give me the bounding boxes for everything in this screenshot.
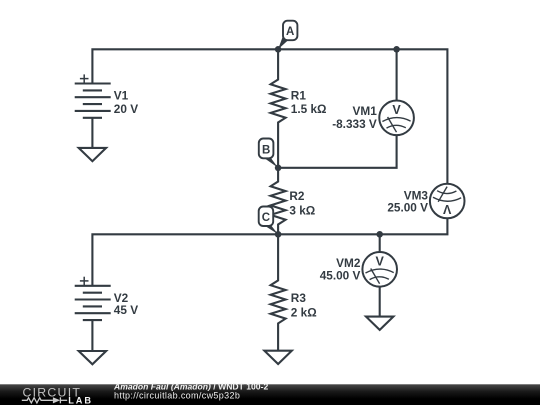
logo resistor-diode squiggle bbox=[22, 397, 67, 403]
svg-text:A: A bbox=[286, 26, 294, 38]
wire: V1 minus to ground bbox=[91, 118, 93, 148]
svg-text:V: V bbox=[392, 103, 401, 117]
wire: VM3 bottom to bottom-right corner, left along middle rail, down to V2 bbox=[92, 218, 447, 285]
voltmeter VM1 bbox=[379, 101, 414, 136]
ground below V2 bbox=[79, 351, 106, 364]
label VM2 / 45.00 V bbox=[320, 256, 361, 282]
ground below R3 bbox=[264, 351, 291, 364]
label V2 / 45 V bbox=[114, 291, 138, 317]
svg-text:V: V bbox=[376, 255, 385, 269]
wire: VM2 branch from middle rail bbox=[379, 234, 381, 252]
label VM3 / 25.00 V bbox=[387, 188, 428, 214]
svg-text:V1: V1 bbox=[114, 89, 129, 103]
junction node A dot bbox=[275, 46, 282, 53]
node A flag bbox=[278, 21, 297, 50]
svg-text:20 V: 20 V bbox=[114, 102, 138, 116]
svg-text:C: C bbox=[262, 212, 270, 224]
junction dot at VM1 top tap bbox=[393, 46, 400, 53]
svg-text:-8.333 V: -8.333 V bbox=[332, 117, 377, 131]
node B flag bbox=[259, 139, 278, 168]
svg-text:LAB: LAB bbox=[68, 395, 93, 405]
wire: VM2 bottom to its ground bbox=[379, 287, 381, 317]
junction node C dot bbox=[275, 231, 282, 238]
svg-text:R1: R1 bbox=[291, 89, 307, 103]
V2 plus sign bbox=[80, 277, 89, 285]
resistor R2 bbox=[271, 168, 286, 235]
svg-text:R2: R2 bbox=[289, 189, 305, 203]
svg-text:1.5 kΩ: 1.5 kΩ bbox=[291, 102, 327, 116]
svg-text:V: V bbox=[443, 202, 452, 216]
svg-text:2 kΩ: 2 kΩ bbox=[291, 305, 317, 319]
wire: V2 minus to ground bbox=[91, 320, 93, 351]
footer bar bbox=[0, 384, 540, 405]
wire: VM1 bottom to node B bbox=[278, 135, 397, 168]
resistor R1 bbox=[271, 49, 286, 168]
node C flag bbox=[259, 207, 278, 235]
ground below VM2 bbox=[366, 317, 393, 330]
junction dot at VM2 tap bbox=[376, 231, 383, 238]
battery V1 bbox=[75, 84, 111, 118]
svg-text:B: B bbox=[262, 145, 270, 157]
wire: VM1 top branch from top rail bbox=[396, 49, 398, 100]
svg-text:45.00 V: 45.00 V bbox=[320, 269, 361, 283]
V1 plus sign bbox=[80, 74, 89, 82]
CircuitLab logo wordmark bbox=[23, 385, 94, 405]
svg-text:http://circuitlab.com/cw5p32b: http://circuitlab.com/cw5p32b bbox=[114, 390, 240, 400]
svg-text:25.00 V: 25.00 V bbox=[387, 201, 428, 215]
svg-text:45 V: 45 V bbox=[114, 303, 138, 317]
svg-text:R3: R3 bbox=[291, 291, 307, 305]
label VM1 / -8.333 V bbox=[332, 104, 377, 131]
ground below V1 bbox=[79, 148, 106, 161]
label R3 / 2 kOhm bbox=[291, 291, 317, 319]
battery V2 bbox=[75, 286, 111, 320]
label R2 / 3 kOhm bbox=[289, 189, 315, 218]
label R1 / 1.5 kOhm bbox=[291, 89, 327, 117]
junction node B dot bbox=[275, 165, 282, 172]
voltmeter VM3 (flipped vertically) bbox=[430, 184, 465, 219]
wire: top rail from V1 up and across to top-right corner, down to VM3 bbox=[92, 49, 447, 183]
voltmeter VM2 bbox=[362, 252, 397, 287]
svg-text:VM1: VM1 bbox=[353, 104, 378, 118]
label V1 / 20 V bbox=[114, 89, 138, 116]
resistor R3 bbox=[271, 234, 286, 350]
svg-text:3 kΩ: 3 kΩ bbox=[289, 204, 315, 218]
